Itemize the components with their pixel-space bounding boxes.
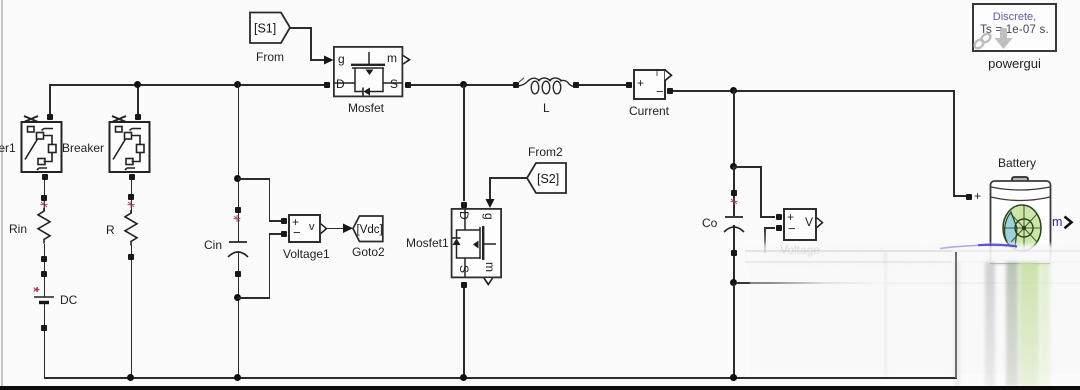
red polarity mark Rin xyxy=(38,199,50,211)
node junction x238 y298 xyxy=(234,294,241,301)
svg-text:[S2]: [S2] xyxy=(537,172,559,186)
label Mosfet1 xyxy=(406,236,449,250)
wire Cin branch: top to plate xyxy=(238,84,240,242)
port R top xyxy=(128,194,134,200)
ammeter Current xyxy=(633,69,666,100)
port Voltage plus xyxy=(776,214,782,220)
port Mosfet D xyxy=(324,82,330,88)
breaker Breaker1 xyxy=(13,108,73,188)
label Voltage1 xyxy=(283,247,330,261)
watermark chain xyxy=(971,28,1016,54)
left edge border line xyxy=(1,0,3,386)
node junction top x464 xyxy=(460,81,467,88)
smear overlay band xyxy=(742,241,1080,269)
port Co top xyxy=(731,190,737,196)
red polarity mark Cin xyxy=(231,213,243,225)
node junction x734 on current line xyxy=(730,87,737,94)
goto wire arrow xyxy=(327,228,346,230)
breaker Breaker xyxy=(101,108,161,188)
wire R branch lower to bus xyxy=(131,245,133,378)
from tag From2 ([S2]) xyxy=(525,161,569,196)
label Cin xyxy=(204,238,222,252)
label From xyxy=(256,50,284,64)
port Voltage minus xyxy=(776,225,782,231)
goto tag Goto2 xyxy=(351,214,386,244)
resistor Rin xyxy=(30,205,58,250)
wire right riser xyxy=(955,252,957,378)
label Breaker xyxy=(62,141,104,155)
wire bottom bus xyxy=(44,377,957,379)
port Rin top xyxy=(41,195,47,201)
node junction top x238 xyxy=(234,81,241,88)
smear fog over battery bottom xyxy=(952,247,1080,273)
wire right riser (above smear) xyxy=(955,252,957,378)
wire faint horizontal y283 xyxy=(736,282,886,284)
wire Rin branch upper xyxy=(44,179,46,211)
label Mosfet xyxy=(348,101,384,115)
wire R branch upper xyxy=(131,179,133,213)
node junction bottom x238 xyxy=(234,374,241,381)
transistor Q2 Mosfet1 block (rotated) xyxy=(451,208,503,288)
label Goto2 xyxy=(352,245,385,259)
wire DC to bottom bus xyxy=(44,304,46,378)
wire breaker1 drop xyxy=(49,84,51,115)
wire Cin branch: arc to bus xyxy=(238,251,240,378)
capacitor Co xyxy=(720,211,748,237)
from tag From ([S1]) xyxy=(248,10,293,46)
port Rin bottom xyxy=(41,256,47,262)
port breaker1 bottom xyxy=(42,174,48,180)
svg-text:D: D xyxy=(457,211,471,220)
smear vertical streaks xyxy=(884,252,887,378)
svg-text:S: S xyxy=(390,77,398,91)
svg-text:[Vdc]: [Vdc] xyxy=(357,224,383,236)
port Current out xyxy=(667,88,673,94)
battery m output xyxy=(1052,215,1062,229)
port breaker1 top xyxy=(47,114,53,120)
node junction x238 y179 xyxy=(234,175,241,182)
red polarity mark R xyxy=(125,199,137,211)
voltmeter Voltage1 xyxy=(288,214,321,243)
label Co xyxy=(702,216,717,230)
wire Voltage1 plus: right from junction xyxy=(238,178,270,180)
label Voltage xyxy=(780,243,820,257)
wire battery + feed xyxy=(953,90,955,196)
label Current xyxy=(629,104,669,118)
wire Voltage minus stub xyxy=(764,227,775,229)
wire Co below arc to junction xyxy=(733,225,735,284)
wire Voltage1 minus xyxy=(269,233,282,235)
wire bottom bus right segment (above smear) xyxy=(740,377,957,379)
resistor R xyxy=(117,207,145,252)
port breaker top xyxy=(135,114,141,120)
port Mosfet1 D xyxy=(461,202,467,208)
svg-text:m: m xyxy=(483,262,497,272)
port Voltage1 minus xyxy=(281,231,287,237)
label R xyxy=(106,223,115,237)
label Breaker1 xyxy=(0,141,16,155)
label From2 xyxy=(528,145,563,159)
node junction x734 y166 xyxy=(730,163,737,170)
port DC minus xyxy=(41,325,47,331)
port R bottom xyxy=(128,254,134,260)
wire xyxy=(269,178,271,221)
smear indigo swoosh xyxy=(930,240,1025,252)
svg-text:D: D xyxy=(336,77,345,91)
svg-text:g: g xyxy=(482,213,496,220)
label L xyxy=(543,101,550,115)
port Co bottom xyxy=(731,250,737,256)
inductor L xyxy=(515,72,585,98)
wire Mosfet1 S to bus xyxy=(463,288,465,378)
port Mosfet1 S xyxy=(461,282,467,288)
wire Voltage plus branch xyxy=(734,166,761,168)
port L left xyxy=(513,82,519,88)
label powergui xyxy=(972,56,1057,71)
wire from S1 xyxy=(290,27,311,29)
battery plus sign xyxy=(974,189,981,203)
wire xyxy=(760,166,762,217)
wire Co to bottom bus xyxy=(733,283,735,378)
battery DC source xyxy=(28,283,68,311)
port Voltage1 plus xyxy=(281,218,287,224)
port Cin bottom xyxy=(235,271,241,277)
node junction bottom x464 xyxy=(460,374,467,381)
wire fading minus drop xyxy=(764,227,766,253)
port Current in xyxy=(626,82,632,88)
node junction bottom x734 xyxy=(730,374,737,381)
port Mosfet S xyxy=(405,82,411,88)
wire xyxy=(673,90,954,92)
port L right xyxy=(573,82,579,88)
wire xyxy=(579,84,627,86)
port breaker bottom xyxy=(129,174,135,180)
wire Rin branch lower to DC plate xyxy=(44,244,46,297)
port DC plus xyxy=(41,271,47,277)
label Battery xyxy=(998,156,1036,170)
wire Co branch from junction y90 xyxy=(733,90,735,167)
bottom dark bar xyxy=(0,386,1080,390)
wire Mosfet1 D drop xyxy=(463,84,465,201)
wire xyxy=(49,84,325,86)
svg-text:g: g xyxy=(338,52,345,66)
capacitor Cin xyxy=(224,236,252,262)
wire xyxy=(269,233,271,298)
svg-text:m: m xyxy=(387,51,397,65)
node junction bottom x734 redraw xyxy=(730,374,737,381)
port Battery plus xyxy=(966,194,972,200)
wire xyxy=(238,297,270,299)
svg-text:[S1]: [S1] xyxy=(254,22,276,36)
wire xyxy=(953,195,966,197)
wire Co vertical to plate xyxy=(733,166,735,216)
wire xyxy=(411,84,514,86)
wire breaker drop xyxy=(137,84,139,114)
label DC xyxy=(60,293,77,307)
node junction bottom x131 xyxy=(127,374,134,381)
node junction top x138 xyxy=(134,81,141,88)
wire xyxy=(760,216,775,218)
port Cin top xyxy=(235,207,241,213)
node junction x734 y283 xyxy=(730,279,737,286)
battery Battery block xyxy=(985,170,1080,280)
op-amp U1 Mosfet block xyxy=(333,46,413,98)
wire from S2 xyxy=(490,177,527,179)
red polarity mark Co xyxy=(728,196,740,208)
svg-text:S: S xyxy=(457,265,471,273)
label Rin xyxy=(9,222,27,236)
wire xyxy=(269,220,282,222)
powergui block xyxy=(972,3,1057,52)
voltmeter Voltage (output) xyxy=(783,208,817,241)
